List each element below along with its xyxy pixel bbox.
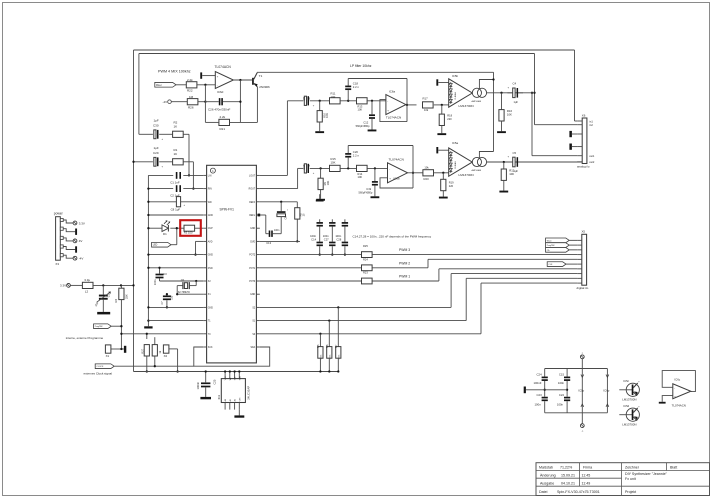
svg-text:10K: 10K — [331, 160, 336, 164]
wire S2 staircase — [451, 274, 577, 308]
svg-text:-: - — [389, 167, 390, 171]
resistor R10 — [315, 101, 329, 133]
crystal Q1 32.768kHz — [177, 278, 196, 294]
wire S1 staircase — [466, 278, 577, 320]
svg-text:C5: C5 — [513, 151, 517, 155]
svg-text:TL074ACN: TL074ACN — [389, 158, 404, 162]
wire Mixer to R22 — [176, 84, 186, 86]
svg-text:externes Clock signal: externes Clock signal — [84, 372, 113, 376]
transistor IC5d — [619, 404, 640, 426]
svg-text:1K: 1K — [174, 124, 178, 128]
resistor R12 10K — [499, 162, 514, 193]
wire R22 to op-amp — [197, 84, 215, 86]
svg-text:10K: 10K — [326, 181, 330, 186]
resistor R21 — [205, 115, 257, 131]
svg-text:C4: C4 — [513, 82, 517, 86]
capacitor C20 2.2n — [345, 146, 359, 169]
resistor R17 — [423, 97, 449, 112]
net tag Wave at X5 — [546, 238, 578, 243]
svg-text:POT0: POT0 — [249, 281, 256, 283]
svg-text:100n: 100n — [557, 403, 564, 407]
resistor R1 — [159, 148, 183, 165]
wire R14 to opamp — [367, 167, 388, 169]
svg-text:1μF: 1μF — [154, 118, 159, 122]
svg-text:out1: out1 — [589, 154, 595, 158]
svg-text:R27: R27 — [140, 348, 144, 353]
capacitor C5 1uF — [507, 151, 523, 173]
svg-text:CLOCK: CLOCK — [96, 366, 104, 368]
svg-text:560pF/680p: 560pF/680p — [359, 191, 373, 195]
connector X3 power — [54, 212, 85, 266]
svg-text:D1: D1 — [163, 232, 167, 236]
wire S0 row — [260, 333, 481, 335]
net tag CLOCK — [95, 364, 114, 369]
wire feedback left drop — [204, 85, 206, 123]
svg-text:4V: 4V — [79, 239, 83, 243]
resistor R16 10K — [497, 93, 512, 133]
wire tag to R4 net — [111, 325, 122, 335]
resistor R18 220 — [437, 105, 452, 135]
wire analog bus x=148.4 — [147, 175, 149, 326]
svg-text:IC5c: IC5c — [623, 379, 629, 383]
svg-text:C12: C12 — [363, 120, 368, 124]
svg-text:100n: 100n — [310, 234, 316, 238]
resistor R28 1k — [152, 337, 162, 367]
wire T0 drop to X1 — [0, 0, 1, 1]
svg-text:GND: GND — [208, 215, 213, 217]
svg-text:C15: C15 — [559, 373, 565, 377]
svg-text:X5: X5 — [582, 230, 586, 234]
capacitor C7 150p — [161, 293, 173, 308]
wire DVD rail — [260, 240, 300, 242]
svg-text:R20: R20 — [424, 177, 430, 181]
svg-text:IC6d: IC6d — [217, 90, 224, 94]
svg-text:2.2 n: 2.2 n — [353, 154, 360, 158]
title block — [536, 463, 710, 496]
svg-text:150: 150 — [171, 295, 174, 300]
svg-text:AVD: AVD — [208, 240, 213, 243]
resistor R23 — [362, 271, 411, 284]
wire 3.3V rail — [93, 284, 135, 286]
svg-text:Änderung: Änderung — [540, 473, 556, 477]
wire POT2 row — [260, 254, 577, 256]
wire inner loop right drop to X6 in2 — [533, 54, 577, 125]
svg-text:SDA: SDA — [250, 346, 255, 349]
capacitor C1 1nF — [170, 172, 181, 185]
svg-text:Ausgabe: Ausgabe — [540, 481, 554, 485]
wire inner loop top (y=53.5) — [139, 53, 535, 55]
label interne externe Programme — [66, 336, 104, 340]
svg-text:IC5d: IC5d — [623, 404, 629, 408]
capacitor C24 100nF — [534, 369, 548, 390]
wire out-loop top (y=50) — [134, 49, 575, 51]
power gate IC6p — [603, 369, 609, 413]
svg-text:X1: X1 — [106, 354, 110, 358]
svg-text:100n: 100n — [535, 403, 542, 407]
svg-text:R3 100: R3 100 — [184, 231, 193, 235]
svg-text:100n: 100n — [558, 381, 565, 385]
svg-text:X2: X2 — [164, 354, 168, 358]
svg-text:analog i/o: analog i/o — [577, 165, 590, 169]
svg-text:C27: C27 — [324, 238, 329, 242]
capacitor C6 electrolytic — [277, 202, 288, 234]
wire S2 row — [260, 306, 451, 308]
svg-text:-: - — [674, 387, 675, 390]
svg-text:C22: C22 — [559, 393, 565, 397]
svg-text:TL074ACN: TL074ACN — [672, 404, 686, 408]
svg-text:in1: in1 — [589, 119, 593, 123]
capacitor C3 100n — [154, 267, 167, 285]
wire C10 to R15 — [310, 167, 330, 169]
svg-text:Clk: Clk — [547, 250, 550, 252]
wire LOUT to C9 — [260, 101, 304, 176]
svg-text:C3: C3 — [163, 272, 167, 276]
svg-text:R19: R19 — [449, 181, 454, 185]
note C14 27 28 — [353, 234, 432, 238]
svg-text:R24: R24 — [363, 257, 368, 261]
svg-text:R5: R5 — [316, 344, 320, 348]
svg-text:24LC32AP: 24LC32AP — [246, 386, 250, 400]
resistor R20 — [423, 165, 449, 181]
plug bar X1 — [124, 346, 126, 353]
wire IC5a out — [487, 161, 582, 163]
power gate IC5p — [578, 369, 584, 413]
wire T1 collector rail (y=72.3) — [257, 71, 494, 73]
wire IC6b out — [408, 172, 423, 174]
wire IC6b feedback box — [380, 172, 414, 188]
svg-text:WD: WD — [208, 202, 212, 204]
svg-text:C14,27,28 = 100n...220 nF depe: C14,27,28 = 100n...220 nF depends of the… — [353, 234, 432, 238]
net tag Clk at X5 — [546, 248, 578, 253]
capacitor C26 — [205, 98, 240, 112]
svg-text:Maßstab: Maßstab — [539, 466, 553, 470]
svg-text:DIY Synthesizer "Jeannie": DIY Synthesizer "Jeannie" — [625, 472, 668, 476]
svg-text:X6: X6 — [582, 113, 586, 117]
svg-text:GND: GND — [208, 307, 213, 309]
supply stub IC6d +in — [200, 72, 215, 78]
connector X5 — [577, 230, 589, 290]
wire feedback right drop — [239, 80, 241, 122]
wire T0 row — [121, 333, 203, 335]
wire bypass bottom rail — [545, 412, 608, 414]
svg-text:C10: C10 — [302, 164, 306, 169]
svg-text:VCC: VCC — [225, 376, 227, 381]
wire WD row — [147, 201, 203, 203]
svg-text:IC5p: IC5p — [578, 389, 584, 393]
svg-text:RIN: RIN — [208, 189, 212, 191]
resistor R19 220 — [439, 173, 454, 199]
node -4V — [163, 100, 188, 104]
svg-text:A2: A2 — [234, 399, 237, 401]
svg-text:C23: C23 — [537, 393, 543, 397]
svg-text:C8 1μF: C8 1μF — [171, 208, 181, 212]
wire R13 to opamp — [367, 100, 386, 102]
svg-text:O-BIAS: O-BIAS — [454, 92, 457, 100]
svg-text:100n: 100n — [323, 234, 329, 238]
svg-text:GND: GND — [250, 228, 255, 230]
supply stub IC5a — [436, 147, 448, 153]
svg-text:C29: C29 — [153, 151, 159, 155]
wire POT1 staircase — [428, 259, 577, 267]
svg-text:10K: 10K — [325, 113, 329, 118]
svg-text:C1 1nF: C1 1nF — [170, 181, 180, 185]
op-amp IC6a — [386, 90, 406, 120]
wire AVD row — [194, 241, 203, 255]
svg-text:R17: R17 — [423, 97, 429, 101]
svg-text:220: 220 — [447, 117, 452, 121]
svg-text:10K: 10K — [358, 108, 363, 112]
svg-text:PWM 4 MIX 100khz: PWM 4 MIX 100khz — [158, 70, 191, 74]
capacitor C9 1uF — [302, 96, 315, 107]
wire inner loop left drop to C30 — [138, 54, 140, 135]
plug bar X6 gnd1 — [569, 131, 577, 137]
svg-text:IC6b: IC6b — [394, 176, 400, 180]
svg-text:CUP: CUP — [208, 228, 213, 230]
wire C4 node down to X6 out1 — [531, 92, 577, 156]
wire POT0 staircase — [439, 269, 577, 281]
svg-text:Zeichner: Zeichner — [625, 466, 640, 470]
wire amp-bias drop x=493.5 — [493, 72, 495, 151]
connector X2 — [163, 345, 169, 358]
svg-text:out2: out2 — [589, 160, 595, 164]
wire left trunk x=133.5 (loop + 3.3V drop) — [133, 50, 135, 372]
svg-text:REFF: REFF — [249, 202, 256, 204]
capacitor C18 2.2n — [345, 79, 359, 101]
capacitor C12 560p — [356, 101, 377, 132]
capacitor C27 100n — [323, 219, 336, 255]
svg-text:100n: 100n — [154, 279, 157, 285]
capacitor C29 1uF — [153, 146, 164, 169]
svg-text:R21: R21 — [220, 127, 226, 131]
svg-text:LIN: LIN — [208, 175, 212, 177]
svg-text:R23: R23 — [363, 271, 368, 275]
resistor R15 — [330, 157, 341, 171]
wire RIN row — [147, 187, 203, 189]
svg-text:C24: C24 — [537, 373, 543, 377]
net tag Prog/SW at X5 — [546, 243, 578, 248]
transistor T1 2N3906 — [252, 73, 270, 89]
resistor R6 pullup — [325, 321, 332, 373]
svg-text:R22: R22 — [187, 89, 193, 93]
svg-text:REFL: REFL — [249, 215, 256, 217]
ground bar near GND pin — [316, 194, 324, 201]
svg-text:power: power — [54, 212, 64, 216]
resistor R11 — [330, 92, 341, 104]
resistor R25 — [362, 244, 411, 257]
svg-text:Mixer: Mixer — [156, 84, 162, 87]
wire LED tag to CUP row — [171, 227, 178, 245]
svg-text:10k: 10k — [424, 108, 429, 112]
capacitor C15 100n — [558, 369, 570, 390]
OTA IC5a LM13700N — [449, 141, 494, 177]
svg-text:POT2: POT2 — [249, 255, 256, 257]
capacitor C25 100nF — [196, 370, 217, 399]
svg-text:10K: 10K — [358, 175, 363, 179]
net tag CLK at X5 — [547, 262, 577, 267]
svg-text:Firma: Firma — [583, 466, 592, 470]
resistor R4 25K — [114, 285, 129, 349]
svg-text:SPIN-FV1: SPIN-FV1 — [220, 207, 235, 211]
svg-text:LM13700N: LM13700N — [459, 104, 474, 108]
wire ROUT to C10 — [260, 168, 304, 188]
svg-text:SCK: SCK — [208, 347, 213, 349]
svg-text:interne, externe Programme: interne, externe Programme — [66, 336, 104, 340]
OTA IC5b LM13700N — [449, 74, 495, 108]
svg-text:100n: 100n — [274, 229, 280, 232]
resistor R27 — [140, 333, 149, 373]
wire C18 feedback top — [348, 79, 407, 122]
resistor R26 — [187, 95, 198, 110]
resistor R24 — [362, 257, 411, 270]
connector X1 — [105, 345, 111, 358]
wire C20 feedback top — [348, 146, 413, 189]
svg-text:C26 470n/330nF: C26 470n/330nF — [208, 108, 231, 112]
svg-text:560pF/680p: 560pF/680p — [356, 124, 370, 128]
svg-text:CLK: CLK — [548, 264, 553, 266]
svg-text:in2: in2 — [589, 123, 593, 127]
label PWM 4 MIX 100khz — [158, 70, 191, 74]
capacitor C8 1uF — [171, 197, 186, 212]
svg-text:AMP-BIAS: AMP-BIAS — [472, 169, 482, 172]
resistor R22 — [186, 78, 197, 93]
svg-text:10k: 10k — [424, 165, 429, 169]
capacitor C19 560p — [359, 168, 380, 198]
svg-text:11:49: 11:49 — [582, 481, 591, 485]
svg-text:1μF: 1μF — [514, 100, 519, 104]
capacitor C13 100n — [266, 229, 281, 245]
svg-text:Spin-FX-V30-47x75.T3001: Spin-FX-V30-47x75.T3001 — [557, 490, 600, 494]
svg-text:04.10.21: 04.10.21 — [561, 481, 575, 485]
wire X1 to plug — [111, 348, 124, 350]
supply stub IC5b — [436, 79, 448, 85]
svg-text:DVD: DVD — [250, 241, 255, 243]
resistor R9 — [316, 168, 330, 200]
label LP filter 10khz — [350, 64, 372, 68]
wire S1 row — [260, 319, 466, 321]
svg-text:GND: GND — [208, 255, 213, 257]
resistor R3 — [184, 225, 195, 234]
svg-text:71,22%: 71,22% — [560, 466, 573, 470]
wire R1 to RIN — [183, 162, 194, 190]
svg-text:L2: L2 — [85, 289, 89, 293]
wire to C29 — [132, 161, 153, 163]
wire T1 row — [148, 320, 203, 322]
resistor R14 — [357, 165, 368, 179]
svg-text:IC6a: IC6a — [389, 90, 395, 94]
svg-text:C14: C14 — [311, 238, 316, 242]
wire R15 to R14 — [340, 167, 356, 169]
svg-text:R18: R18 — [447, 114, 452, 118]
svg-text:2.2k: 2.2k — [220, 115, 226, 119]
svg-text:O-BIAS: O-BIAS — [454, 161, 457, 169]
svg-text:-: - — [217, 85, 218, 88]
wire CUP row (LED/R3) — [147, 227, 203, 229]
svg-text:SCL: SCL — [235, 377, 237, 381]
svg-text:2.2 n: 2.2 n — [353, 85, 360, 89]
net tag Prog/SW — [94, 324, 112, 329]
svg-text:25K: 25K — [125, 294, 129, 299]
capacitor C2 1nF — [170, 185, 181, 197]
svg-text:*: * — [287, 209, 288, 213]
svg-text:C28: C28 — [336, 238, 341, 242]
node 3.3V input — [60, 284, 82, 288]
wire GND row 2 — [147, 253, 203, 255]
svg-text:Prog/SW: Prog/SW — [547, 244, 555, 247]
svg-text:T1: T1 — [259, 74, 263, 78]
resistor R2 — [159, 120, 183, 137]
capacitor C30 1uF — [153, 118, 164, 141]
svg-text:-: - — [387, 99, 388, 103]
svg-text:C30: C30 — [153, 123, 159, 127]
svg-text:C9: C9 — [302, 96, 306, 100]
resistor R8 — [295, 202, 306, 243]
svg-text:LP filter 10khz: LP filter 10khz — [350, 64, 372, 68]
resistor R7 pullup — [334, 307, 341, 372]
wire X1 row — [177, 293, 203, 295]
ground bus bottom — [144, 326, 152, 328]
svg-text:100nF: 100nF — [534, 381, 542, 385]
svg-text:DVD: DVD — [208, 268, 213, 270]
svg-text:100n: 100n — [335, 234, 341, 238]
svg-text:3.3μ: 3.3μ — [84, 278, 90, 282]
wire REFF row — [260, 201, 298, 203]
svg-text:Datei: Datei — [539, 490, 548, 494]
svg-text:digital i/o: digital i/o — [577, 286, 589, 290]
wire REFL row — [258, 214, 266, 234]
svg-text:ROUT: ROUT — [249, 189, 256, 191]
capacitor C28 100n — [335, 219, 348, 255]
supply node -4V bottom — [580, 413, 584, 433]
svg-text:1K: 1K — [174, 152, 178, 156]
inductor L2 3.3u — [82, 278, 93, 293]
wire POT0 row — [260, 280, 439, 282]
svg-text:LM13700N: LM13700N — [622, 423, 636, 427]
wire SCK loop — [194, 347, 270, 366]
svg-text:X3: X3 — [55, 262, 59, 266]
connector X6 — [577, 113, 595, 168]
svg-text:A1: A1 — [229, 399, 232, 401]
svg-text:IC5a: IC5a — [452, 141, 458, 145]
svg-text:3.3V: 3.3V — [60, 284, 66, 288]
svg-text:IC5b: IC5b — [452, 74, 458, 78]
svg-text:C19: C19 — [366, 187, 371, 191]
resistor R13 — [357, 98, 368, 112]
wire C9 to R11 — [310, 100, 330, 102]
svg-text:1M: 1M — [189, 95, 194, 99]
LED D1 — [162, 220, 170, 236]
wire CLOCK to SCK loop — [114, 365, 193, 367]
wire bypass top rail — [545, 368, 608, 370]
wire POT1 row — [260, 267, 428, 269]
svg-text:GND: GND — [250, 294, 255, 296]
wire IC6a out — [406, 104, 417, 106]
op-amp IC6b — [388, 158, 408, 183]
wire GND row 1 — [147, 214, 203, 216]
svg-text:Q1: Q1 — [181, 278, 185, 282]
IC SPIN-FV1 U1 — [203, 165, 260, 363]
op-amp IC6c spare — [659, 371, 696, 408]
wire T1 emitter to feedback — [256, 87, 258, 123]
svg-text:Fx unit: Fx unit — [625, 477, 636, 481]
svg-text:Wave: Wave — [547, 240, 552, 242]
svg-text:220: 220 — [449, 184, 454, 188]
svg-text:Projekt: Projekt — [625, 490, 636, 494]
svg-text:1μF: 1μF — [514, 169, 519, 173]
svg-text:R4: R4 — [114, 298, 118, 302]
capacitor C14 100n — [310, 219, 323, 255]
capacitor C23 100n — [535, 389, 548, 413]
capacitor C17 10u — [94, 285, 112, 314]
